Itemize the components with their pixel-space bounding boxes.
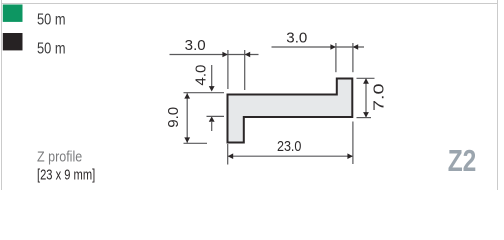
extension tick at right leg top xyxy=(357,77,375,79)
7.0 top arrowhead xyxy=(363,78,369,83)
svg-text:4.0: 4.0 xyxy=(193,65,210,86)
dimension 3.0 left arrowhead xyxy=(222,52,228,58)
extension tick at profile top xyxy=(184,92,225,94)
svg-text:50 m: 50 m xyxy=(37,11,66,28)
svg-text:7.0: 7.0 xyxy=(371,83,388,111)
dimension 23.0 (overall width) line xyxy=(228,155,353,157)
svg-text:3.0: 3.0 xyxy=(185,37,206,54)
dimension 7.0 (right leg height) line xyxy=(365,78,367,117)
extension line at profile left edge xyxy=(227,50,229,89)
panel border left xyxy=(1,0,3,190)
svg-text:Z profile: Z profile xyxy=(37,149,82,166)
9.0 bottom arrowhead xyxy=(184,137,190,142)
extension line at right leg right edge xyxy=(352,43,354,72)
svg-text:3.0: 3.0 xyxy=(286,29,307,46)
dimension 9.0 (left height) line xyxy=(186,93,188,143)
extension line below right edge xyxy=(352,122,354,165)
extension tick at left leg bottom xyxy=(184,142,208,144)
7.0 bottom arrowhead xyxy=(363,112,369,117)
svg-text:23.0: 23.0 xyxy=(277,138,302,155)
panel border top xyxy=(1,3,497,5)
extension tick at web bottom xyxy=(207,115,225,117)
Z profile cross-section body xyxy=(228,79,353,143)
right leg dimension left arrowhead xyxy=(330,44,336,50)
extension tick at right leg bottom xyxy=(357,117,372,119)
dimension 3.0 right arrowhead xyxy=(245,52,251,58)
dimension 3.0 (left leg width) line xyxy=(170,54,259,56)
4.0 down arrowhead xyxy=(209,86,215,91)
legend swatch green xyxy=(3,5,23,22)
svg-text:9.0: 9.0 xyxy=(165,107,182,128)
4.0 up arrowhead xyxy=(209,116,215,121)
extension line below left leg xyxy=(227,144,229,165)
right leg dimension right arrowhead xyxy=(353,44,359,50)
svg-text:Z2: Z2 xyxy=(448,143,477,178)
svg-text:[23 x 9 mm]: [23 x 9 mm] xyxy=(37,167,95,184)
23.0 left arrowhead xyxy=(228,153,234,159)
4.0 lower tail xyxy=(211,121,213,131)
dimension 4.0 (web thickness) upper tail xyxy=(211,65,213,87)
dimension 3.0 (right leg width) line xyxy=(272,46,365,48)
svg-text:50 m: 50 m xyxy=(37,40,66,57)
extension line at right leg left edge xyxy=(335,43,337,72)
9.0 top arrowhead xyxy=(184,93,190,98)
panel border right xyxy=(497,0,499,190)
legend swatch black xyxy=(3,33,23,50)
23.0 right arrowhead xyxy=(347,153,353,159)
extension line at left leg right edge xyxy=(244,50,246,90)
